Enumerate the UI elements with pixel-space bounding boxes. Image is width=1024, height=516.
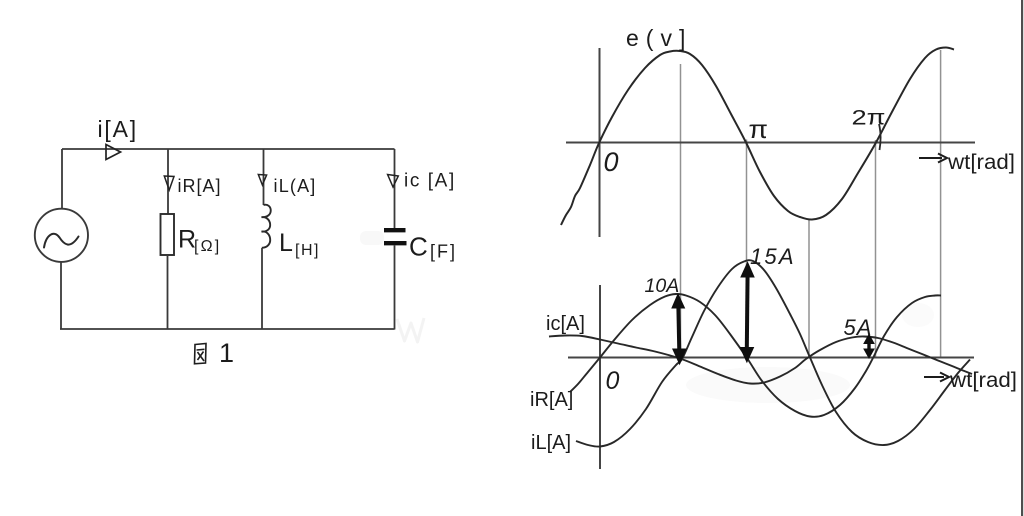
svg-text:[Ω]: [Ω]: [194, 238, 221, 255]
wire branch L top: [263, 149, 265, 205]
svg-text:iL(A]: iL(A]: [274, 176, 317, 196]
svg-text:5A: 5A: [844, 315, 873, 340]
svg-text:iR[A]: iR[A]: [178, 176, 222, 196]
wire branch L bottom: [261, 248, 263, 329]
faint smudge under bottom axis: [686, 367, 850, 403]
10A amplitude arrow: [672, 294, 686, 364]
sine symbol inside source: [44, 234, 79, 248]
svg-text:15A: 15A: [750, 244, 796, 269]
guide line at 2pi: [875, 140, 877, 357]
guide line at e trough: [808, 220, 810, 357]
15A amplitude arrow: [740, 263, 754, 363]
e(v) curve: [561, 48, 954, 226]
top graph x-axis: [566, 142, 975, 144]
arrow iR: [164, 176, 174, 190]
arrow iC: [388, 175, 399, 188]
wire branch R top: [167, 149, 169, 214]
screen right edge border: [1021, 0, 1023, 516]
wt[rad] axis arrow (bottom): [924, 376, 944, 378]
5A amplitude arrow: [864, 335, 874, 359]
svg-text:0: 0: [604, 147, 619, 177]
wire top bus: [62, 148, 395, 150]
iC curve: [549, 335, 972, 383]
guide line at pi: [746, 140, 748, 358]
svg-text:ic [A]: ic [A]: [404, 171, 456, 192]
svg-text:10A: 10A: [645, 275, 680, 297]
svg-text:1: 1: [219, 338, 234, 368]
wt[rad] axis arrow (top): [919, 157, 942, 159]
faint smudge near capacitor: [360, 231, 384, 245]
wire branch C bottom: [394, 246, 396, 330]
svg-text:iL[A]: iL[A]: [531, 432, 571, 454]
iR curve: [570, 294, 941, 417]
figure label (zu) box: [195, 344, 207, 364]
svg-text:L: L: [279, 229, 293, 257]
svg-text:wt[rad]: wt[rad]: [949, 369, 1017, 392]
resistor R: [161, 214, 175, 255]
svg-text:[F]: [F]: [430, 242, 457, 262]
wire branch C top: [394, 149, 396, 229]
wire left (source bottom): [60, 262, 62, 329]
svg-text:e(v]: e(v]: [626, 25, 692, 51]
svg-text:iR[A]: iR[A]: [530, 389, 573, 411]
current arrow i on top wire: [106, 145, 121, 160]
bottom graph y-axis: [599, 285, 601, 469]
svg-text:π: π: [749, 114, 769, 144]
svg-text:[H]: [H]: [295, 242, 320, 259]
guide line at right peak: [940, 50, 942, 357]
2pi descender tail: [879, 124, 881, 150]
AC source V1: [35, 209, 88, 262]
svg-text:ic[A]: ic[A]: [546, 313, 585, 335]
wire bottom bus: [60, 328, 395, 330]
svg-text:0: 0: [606, 367, 620, 395]
svg-text:wt[rad]: wt[rad]: [947, 151, 1015, 174]
capacitor C plates: [384, 228, 406, 232]
wire left (source top): [61, 149, 63, 209]
arrow iL: [258, 175, 266, 186]
faint W scribble: [397, 318, 424, 342]
top graph y-axis: [599, 48, 601, 237]
guide line at e peak: [680, 64, 682, 357]
svg-text:2π: 2π: [852, 107, 886, 130]
svg-text:C: C: [409, 232, 428, 262]
iL curve: [576, 260, 970, 446]
wire branch R bottom: [167, 255, 169, 329]
bottom graph x-axis: [568, 357, 974, 359]
svg-text:i[A]: i[A]: [98, 116, 138, 142]
inductor L coil: [262, 205, 271, 248]
